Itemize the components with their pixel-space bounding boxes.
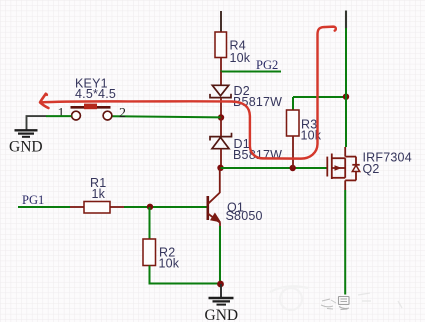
wire (down to R2) bbox=[149, 207, 151, 239]
wire (PG1 stub) bbox=[18, 206, 70, 208]
junction (D2/D1/switch node) bbox=[218, 114, 224, 120]
junction (D1/collector/gate node) bbox=[217, 165, 223, 171]
junction (emitter/R2/GND node) bbox=[217, 281, 224, 288]
ground GND (bottom) bbox=[205, 284, 239, 322]
ground GND (left) bbox=[9, 130, 43, 155]
wire (supply stub above R4) bbox=[220, 11, 222, 37]
diode D2 bbox=[210, 72, 231, 118]
svg-text:10k: 10k bbox=[159, 257, 180, 271]
svg-text:2: 2 bbox=[119, 106, 126, 121]
svg-text:PG2: PG2 bbox=[256, 58, 278, 72]
resistor R3 bbox=[287, 97, 300, 168]
wire (main vertical rail) bbox=[345, 11, 347, 29]
resistor R2 bbox=[143, 239, 156, 266]
junction (R3 bottom node) bbox=[290, 165, 296, 171]
resistor R4 bbox=[215, 32, 227, 72]
watermark bbox=[270, 286, 402, 310]
wire (gate net) bbox=[221, 167, 327, 169]
svg-text:S8050: S8050 bbox=[226, 209, 263, 223]
transistor Q1 S8050 bbox=[208, 168, 220, 226]
svg-text:B5817W: B5817W bbox=[233, 148, 282, 162]
wire (R2 bottom to gnd rail) bbox=[150, 266, 221, 284]
wire (R1 to base) bbox=[124, 206, 207, 208]
svg-text:4.5*4.5: 4.5*4.5 bbox=[75, 87, 116, 101]
annotation red path bbox=[40, 27, 336, 159]
svg-text:Q2: Q2 bbox=[363, 162, 380, 176]
svg-text:GND: GND bbox=[205, 307, 239, 322]
wire (R3 top to main rail) bbox=[293, 96, 346, 98]
resistor R1 bbox=[70, 202, 124, 214]
junction (rail/R3 node) bbox=[343, 94, 349, 100]
svg-text:10k: 10k bbox=[230, 51, 251, 65]
pushbutton KEY1 bbox=[71, 104, 112, 120]
wire (emitter down) bbox=[219, 226, 221, 284]
diode D1 bbox=[210, 118, 232, 168]
svg-text:1k: 1k bbox=[92, 187, 106, 201]
wire (Q2 drain down) bbox=[344, 190, 346, 295]
wire (pin1 to ground) bbox=[46, 115, 71, 117]
transistor Q2 IRF7304 bbox=[327, 147, 359, 190]
junction (base/R2 node) bbox=[147, 204, 153, 210]
wire (PG2 net) bbox=[220, 71, 281, 73]
svg-text:PG1: PG1 bbox=[22, 193, 44, 207]
wire (switch to diodes) bbox=[112, 116, 221, 117]
svg-text:GND: GND bbox=[9, 138, 43, 155]
svg-text:1: 1 bbox=[58, 106, 65, 121]
